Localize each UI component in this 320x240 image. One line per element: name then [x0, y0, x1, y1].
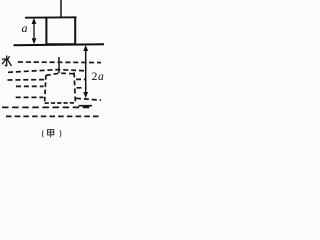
rod of dashed block: [58, 57, 60, 73]
dashed water line 3 left: [8, 79, 45, 81]
block (solid square): [46, 17, 75, 44]
water character: [2, 56, 11, 66]
background: [0, 0, 114, 142]
dashed water line 4 left: [14, 85, 44, 87]
dimension 2a arrow: [85, 47, 87, 96]
dimension a arrow: [33, 20, 35, 43]
dashed water line 6: [2, 106, 91, 108]
dashed water line 4 right: [77, 87, 85, 89]
bottom edge: [45, 102, 76, 104]
svg-text:2a: 2a: [92, 71, 104, 83]
rod above block: [60, 0, 62, 18]
dashed square (submerged block position): [45, 73, 76, 104]
svg-text:a: a: [22, 21, 28, 35]
dashed water line 3 right: [76, 78, 85, 80]
dashed water line 1: [17, 61, 102, 64]
top edge: [46, 73, 74, 75]
caption (甲): [42, 130, 61, 137]
water surface solid line: [14, 44, 105, 45]
extra thick dash on line 6: [79, 105, 93, 107]
dashed water line 2: [8, 70, 86, 73]
left edge: [45, 75, 46, 103]
right edge: [74, 73, 75, 103]
dashed water line 5 left: [14, 96, 44, 98]
dashed water line 5 right: [76, 98, 101, 100]
dashed water line 7: [6, 115, 101, 117]
block top line with left extension tick: [25, 16, 77, 18]
